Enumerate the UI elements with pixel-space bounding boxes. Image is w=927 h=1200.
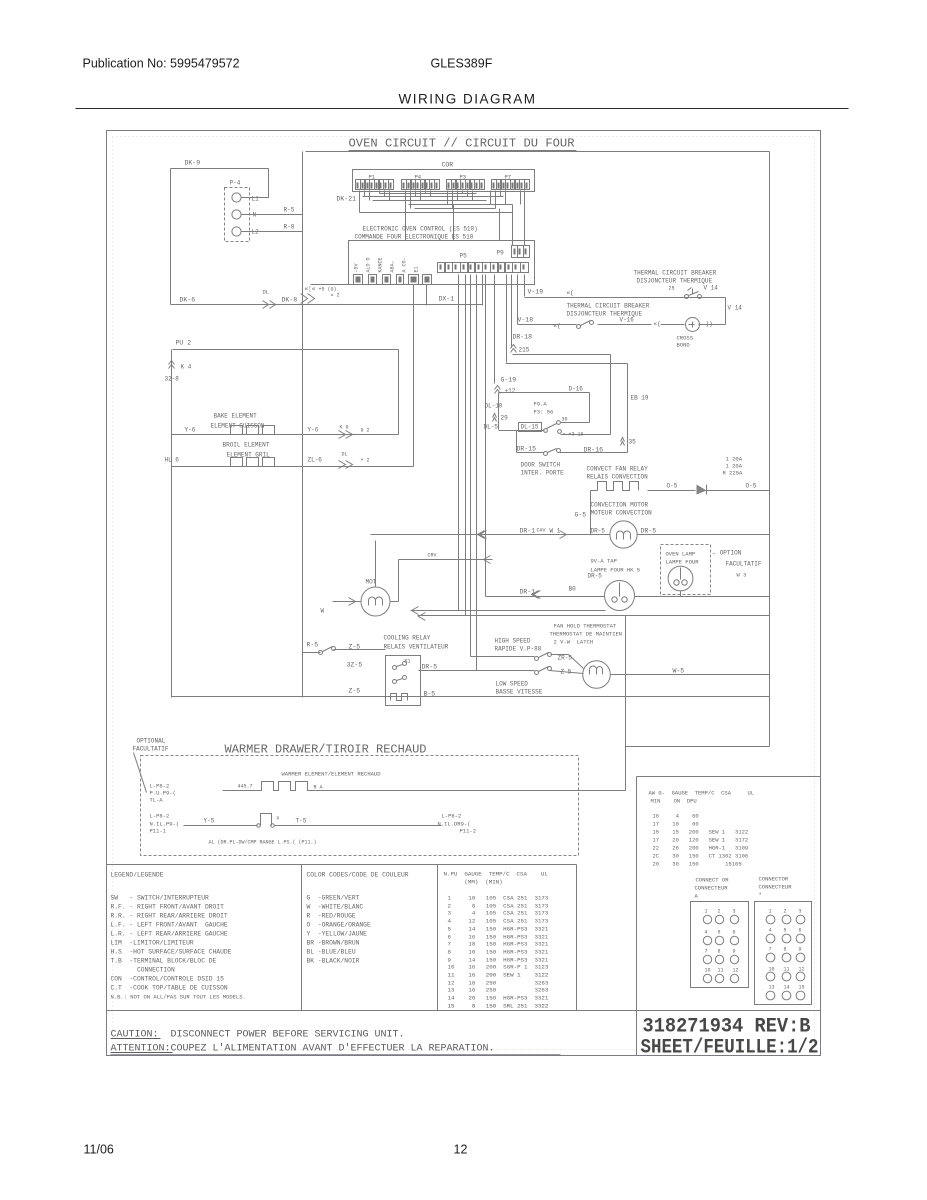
svg-text:A: A — [695, 893, 699, 900]
svg-text:9 2: 9 2 — [361, 428, 370, 434]
svg-text:*: * — [759, 892, 762, 899]
svg-text:15 15 200 SEW 1 3122: 15 15 200 SEW 1 3122 — [653, 829, 749, 836]
svg-text:1 10 105 CSA 251 3173: 1 10 105 CSA 251 3173 — [448, 895, 549, 902]
svg-text:5 14 150 HGR-PS3 3321: 5 14 150 HGR-PS3 3321 — [448, 926, 549, 933]
svg-text:COOLING RELAY: COOLING RELAY — [384, 635, 431, 642]
svg-text:R-5: R-5 — [307, 642, 319, 649]
svg-text:Z-5: Z-5 — [349, 688, 361, 695]
svg-text:CONNECTOR: CONNECTOR — [759, 876, 789, 883]
svg-text:DR-5: DR-5 — [591, 528, 606, 535]
svg-text:13 16 250 3263: 13 16 250 3263 — [448, 987, 549, 994]
svg-text:DR-5: DR-5 — [641, 528, 657, 535]
svg-text:12: 12 — [454, 1143, 468, 1157]
svg-text:CONNECTEUR: CONNECTEUR — [695, 885, 729, 892]
svg-text:SW - SWITCH/INTERRUPTEUR: SW - SWITCH/INTERRUPTEUR — [111, 895, 209, 902]
svg-text:DL-5: DL-5 — [484, 424, 499, 431]
svg-text:O -ORANGE/ORANGE: O -ORANGE/ORANGE — [307, 922, 371, 929]
svg-text:14: 14 — [784, 985, 790, 991]
svg-text:AL (DR.PL-DW/CMP RANGE L.PS.(: AL (DR.PL-DW/CMP RANGE L.PS.( (P11.) — [209, 840, 317, 846]
svg-text:3Z-5: 3Z-5 — [347, 662, 363, 669]
svg-text:6: 6 — [733, 930, 736, 936]
svg-text:2C 30 150 CT 1302 3106: 2C 30 150 CT 1302 3106 — [653, 853, 749, 860]
svg-text:2: 2 — [718, 909, 721, 915]
svg-text:CONVECT FAN RELAY: CONVECT FAN RELAY — [587, 466, 649, 473]
svg-text:W 1: W 1 — [550, 528, 561, 535]
svg-text:ELECTRONIC OVEN CONTROL (ES 51: ELECTRONIC OVEN CONTROL (ES 510) — [363, 226, 478, 233]
svg-text:V-18: V-18 — [518, 317, 534, 324]
svg-text:COR: COR — [442, 162, 454, 169]
svg-text:N.IL.DR9-(: N.IL.DR9-( — [438, 821, 471, 828]
svg-text:MOTEUR CONVECTION: MOTEUR CONVECTION — [591, 510, 653, 517]
svg-text:12 18 250 3263: 12 18 250 3263 — [448, 980, 549, 987]
svg-text:25: 25 — [669, 286, 675, 292]
svg-text:L.R. - LEFT REAR/ARRIERE GAUCH: L.R. - LEFT REAR/ARRIERE GAUCHE — [111, 931, 228, 938]
svg-text:D-16: D-16 — [569, 386, 584, 393]
svg-text:10 16 200 SGR-P 1 3123: 10 16 200 SGR-P 1 3123 — [448, 964, 549, 971]
svg-text:R: R — [277, 816, 280, 822]
svg-text:W: W — [321, 608, 325, 615]
svg-text:R-8: R-8 — [284, 224, 295, 231]
svg-text:(MM) (MIN): (MM) (MIN) — [444, 879, 503, 886]
svg-text:T-5: T-5 — [296, 818, 307, 825]
svg-text:+ 2: + 2 — [361, 458, 370, 464]
svg-text:Publication No: 5995479572: Publication No: 5995479572 — [83, 57, 240, 71]
svg-text:Y-6: Y-6 — [308, 427, 319, 434]
svg-text:ZL-6: ZL-6 — [308, 457, 323, 464]
svg-text:3: 3 — [733, 909, 736, 915]
svg-text:15 8 150 SRL 251 3322: 15 8 150 SRL 251 3322 — [448, 1003, 549, 1010]
svg-text:8: 8 — [784, 947, 787, 953]
svg-text:B0: B0 — [569, 586, 577, 593]
svg-text:12: 12 — [733, 968, 739, 974]
svg-text:10: 10 — [705, 968, 711, 974]
svg-text:K 9: K 9 — [340, 425, 349, 431]
svg-text:L-P8-2: L-P8-2 — [150, 813, 170, 820]
svg-text:11 16 200 SEW 1 3122: 11 16 200 SEW 1 3122 — [448, 972, 549, 979]
svg-text:R A: R A — [314, 785, 323, 791]
svg-text:9: 9 — [799, 947, 802, 953]
svg-text:P.U.P9-(: P.U.P9-( — [150, 790, 176, 797]
svg-text:8: 8 — [718, 949, 721, 955]
svg-text:DK-6: DK-6 — [180, 297, 196, 304]
svg-text:20 30 150 15105: 20 30 150 15105 — [653, 861, 742, 868]
svg-text:HL 6: HL 6 — [165, 457, 180, 464]
svg-text:7: 7 — [705, 949, 708, 955]
svg-text:DK-9: DK-9 — [185, 160, 201, 167]
svg-text:BL -BLUE/BLEU: BL -BLUE/BLEU — [307, 949, 356, 956]
svg-text:A8A-: A8A- — [390, 260, 396, 272]
svg-text:« 2: « 2 — [331, 293, 340, 299]
svg-text:V-16: V-16 — [620, 317, 635, 324]
svg-text:W-5: W-5 — [673, 668, 685, 675]
svg-text:8 10 150 HGR-PS3 3321: 8 10 150 HGR-PS3 3321 — [448, 949, 549, 956]
svg-text:FAN HOLD THERMOSTAT: FAN HOLD THERMOSTAT — [554, 623, 617, 630]
svg-text:P-4: P-4 — [230, 180, 241, 187]
svg-text:« +3 16: « +3 16 — [563, 432, 584, 438]
svg-text:1: 1 — [705, 909, 708, 915]
svg-text:«(: «( — [554, 323, 561, 330]
svg-text:32-8: 32-8 — [165, 376, 180, 383]
svg-text:H.S -HOT SURFACE/SURFACE CHAU: H.S -HOT SURFACE/SURFACE CHAUDE — [111, 949, 232, 956]
svg-text:P9: P9 — [497, 250, 505, 257]
svg-text:P11-1: P11-1 — [150, 828, 167, 835]
svg-text:4: 4 — [769, 928, 772, 934]
svg-text:O-5: O-5 — [746, 483, 757, 490]
svg-text:-5V: -5V — [354, 263, 360, 272]
svg-text:R-5: R-5 — [284, 207, 295, 214]
svg-text:DR-5: DR-5 — [588, 573, 603, 580]
svg-text:THERMAL CIRCUIT BREAKER: THERMAL CIRCUIT BREAKER — [634, 270, 717, 277]
svg-text:RELAIS VENTILATEUR: RELAIS VENTILATEUR — [384, 644, 449, 651]
svg-text:L-P8-2: L-P8-2 — [150, 783, 170, 790]
svg-text:O-5: O-5 — [667, 483, 678, 490]
svg-text:1 20A: 1 20A — [726, 463, 743, 470]
svg-text:35: 35 — [629, 439, 637, 446]
svg-text:2 8 105 CSA 251 3173: 2 8 105 CSA 251 3173 — [448, 903, 549, 910]
svg-text:ALO O: ALO O — [366, 257, 372, 272]
svg-text:215: 215 — [519, 347, 530, 354]
svg-text:R.F. - RIGHT FRONT/AVANT DROIT: R.F. - RIGHT FRONT/AVANT DROIT — [111, 904, 225, 911]
svg-text:R -RED/ROUGE: R -RED/ROUGE — [307, 913, 356, 920]
svg-text:G-19: G-19 — [501, 377, 517, 384]
svg-text:22 26 200 HGR-1 3109: 22 26 200 HGR-1 3109 — [653, 845, 749, 852]
svg-text:DR-1: DR-1 — [520, 528, 536, 535]
svg-text:SHEET/FEUILLE:1/2: SHEET/FEUILLE:1/2 — [641, 1037, 819, 1060]
svg-text:COLOR CODES/CODE DE COULEUR: COLOR CODES/CODE DE COULEUR — [307, 872, 409, 879]
svg-text:30: 30 — [562, 417, 568, 423]
svg-text:DL-10: DL-10 — [485, 403, 503, 410]
svg-text:F9.A: F9.A — [534, 401, 548, 408]
svg-text:17 10 60: 17 10 60 — [653, 821, 699, 828]
svg-text:1: 1 — [769, 909, 772, 915]
svg-text:RAPIDE V.P-88: RAPIDE V.P-88 — [495, 646, 542, 653]
svg-text:L1: L1 — [252, 196, 260, 203]
svg-text:10: 10 — [769, 967, 775, 973]
svg-text:N.PU GAUGE TEMP/C CSA UL: N.PU GAUGE TEMP/C CSA UL — [444, 871, 549, 878]
svg-text:GLES389F: GLES389F — [431, 57, 493, 71]
svg-text:2 V-W LATCH: 2 V-W LATCH — [554, 639, 594, 646]
svg-text:FACULTATIF: FACULTATIF — [726, 561, 762, 568]
svg-text:Y-6: Y-6 — [185, 427, 196, 434]
svg-text:L.F. - LEFT FRONT/AVANT GAUCH: L.F. - LEFT FRONT/AVANT GAUCHE — [111, 922, 228, 929]
svg-text:V-19: V-19 — [528, 289, 544, 296]
svg-text:29: 29 — [501, 415, 509, 422]
svg-text:E1: E1 — [414, 266, 420, 272]
svg-text:R 225A: R 225A — [723, 470, 744, 477]
svg-text:WARMER DRAWER/TIROIR RECHAUD: WARMER DRAWER/TIROIR RECHAUD — [225, 744, 427, 757]
svg-text:DL: DL — [263, 289, 270, 296]
svg-text:1 20A: 1 20A — [726, 456, 743, 463]
svg-text:OPTIONAL: OPTIONAL — [137, 738, 166, 745]
svg-text:V 14: V 14 — [704, 285, 719, 292]
svg-text:«(: «( — [654, 321, 661, 328]
svg-text:T.B -TERMINAL BLOCK/BLOC DE: T.B -TERMINAL BLOCK/BLOC DE — [111, 958, 217, 965]
svg-text:WARMER ELEMENT/ELEMENT RECHAUD: WARMER ELEMENT/ELEMENT RECHAUD — [282, 771, 382, 778]
svg-text:6: 6 — [799, 928, 802, 934]
svg-text:BR -BROWN/BRUN: BR -BROWN/BRUN — [307, 940, 360, 947]
svg-text:BROIL ELEMENT: BROIL ELEMENT — [223, 442, 270, 449]
svg-text:W 3: W 3 — [737, 572, 747, 579]
svg-text:TL-A: TL-A — [150, 797, 164, 804]
svg-text:BAKE ELEMENT: BAKE ELEMENT — [214, 413, 258, 420]
svg-text:R.R. - RIGHT REAR/ARRIERE DROI: R.R. - RIGHT REAR/ARRIERE DROIT — [111, 913, 228, 920]
svg-text:INTER. PORTE: INTER. PORTE — [521, 470, 565, 477]
svg-text:KANCE: KANCE — [378, 257, 384, 272]
svg-text:P11-2: P11-2 — [460, 828, 477, 835]
svg-text:LAMPE FOUR: LAMPE FOUR — [666, 559, 700, 566]
svg-text:+12: +12 — [505, 388, 516, 395]
svg-text:LIM -LIMITOR/LIMITEUR: LIM -LIMITOR/LIMITEUR — [111, 940, 194, 947]
svg-text:G-5: G-5 — [575, 512, 587, 519]
svg-text:5: 5 — [784, 928, 787, 934]
svg-text:13: 13 — [769, 985, 775, 991]
svg-text:DL: DL — [342, 452, 348, 458]
svg-text:A CO-: A CO- — [402, 257, 408, 272]
svg-text:DL-15: DL-15 — [521, 424, 539, 431]
svg-text:«(: «( — [567, 290, 574, 297]
svg-text:C.T -COOK TOP/TABLE DE CUISSO: C.T -COOK TOP/TABLE DE CUISSON — [111, 985, 228, 992]
svg-text:N.B.: NOT ON ALL/PAS SUR TOUT: N.B.: NOT ON ALL/PAS SUR TOUT LES MODELS… — [111, 994, 246, 1001]
svg-text:9V-A TAP: 9V-A TAP — [591, 558, 617, 565]
svg-text:THERMAL CIRCUIT BREAKER: THERMAL CIRCUIT BREAKER — [567, 303, 650, 310]
svg-text:CRV: CRV — [428, 553, 437, 559]
svg-text:PU 2: PU 2 — [176, 340, 192, 347]
svg-text:BOND: BOND — [677, 342, 691, 349]
svg-text:9: 9 — [733, 949, 736, 955]
svg-text:DX-1: DX-1 — [439, 296, 455, 303]
svg-text:V 14: V 14 — [728, 305, 743, 312]
svg-text:DR-5: DR-5 — [422, 664, 438, 671]
svg-text:Y-5: Y-5 — [204, 818, 215, 825]
svg-text:4 12 105 CSA 251 3173: 4 12 105 CSA 251 3173 — [448, 918, 549, 925]
svg-text:L-P8-2: L-P8-2 — [442, 813, 462, 820]
svg-text:7 18 150 HGR-PS3 3321: 7 18 150 HGR-PS3 3321 — [448, 941, 549, 948]
svg-text:CAV: CAV — [537, 528, 546, 534]
svg-text:«¦«: «¦« — [305, 286, 316, 293]
svg-text:17 20 120 SEW 1 3172: 17 20 120 SEW 1 3172 — [653, 837, 749, 844]
svg-text:CONNECTEUR: CONNECTEUR — [759, 884, 793, 891]
svg-text:16 4 60: 16 4 60 — [653, 813, 699, 820]
svg-text:← OPTION: ← OPTION — [713, 550, 742, 557]
svg-text:DR-15: DR-15 — [517, 446, 537, 453]
svg-text:COMMANDE FOUR ELECTRONIQUE ES: COMMANDE FOUR ELECTRONIQUE ES 510 — [355, 234, 474, 241]
svg-text:CONNECT OR: CONNECT OR — [696, 877, 730, 884]
svg-text:12: 12 — [799, 967, 805, 973]
svg-text:MIN ON DPU: MIN ON DPU — [651, 798, 697, 805]
svg-text:DK-8: DK-8 — [282, 297, 298, 304]
svg-text:WIRING DIAGRAM: WIRING DIAGRAM — [399, 92, 537, 107]
svg-text:F3: 56: F3: 56 — [534, 409, 554, 416]
svg-text:RELAIS CONVECTION: RELAIS CONVECTION — [587, 474, 649, 481]
svg-text:3: 3 — [799, 909, 802, 915]
svg-text:4: 4 — [705, 930, 708, 936]
svg-text:OVEN LAMP: OVEN LAMP — [666, 551, 696, 558]
svg-text:318271934 REV:B: 318271934 REV:B — [643, 1016, 811, 1039]
svg-text:LOW SPEED: LOW SPEED — [496, 681, 529, 688]
svg-text:CONVECTION MOTOR: CONVECTION MOTOR — [591, 502, 649, 509]
svg-text:CONNECTION: CONNECTION — [111, 967, 175, 974]
svg-text:OVEN CIRCUIT // CIRCUIT DU FOU: OVEN CIRCUIT // CIRCUIT DU FOUR — [349, 137, 576, 151]
svg-text:CON -CONTROL/CONTROLE DSID 15: CON -CONTROL/CONTROLE DSID 15 — [111, 976, 225, 983]
svg-text:DISJONCTEUR THERMIQUE: DISJONCTEUR THERMIQUE — [637, 278, 713, 285]
svg-text:BASSE VITESSE: BASSE VITESSE — [496, 689, 543, 696]
svg-text:FACULTATIF: FACULTATIF — [133, 746, 169, 753]
svg-text:Y -YELLOW/JAUNE: Y -YELLOW/JAUNE — [307, 931, 368, 938]
svg-text:6 16 150 HGR-PS3 3321: 6 16 150 HGR-PS3 3321 — [448, 934, 549, 941]
svg-text:2: 2 — [784, 909, 787, 915]
svg-text:THERMOSTAT DE MAINTIEN: THERMOSTAT DE MAINTIEN — [550, 631, 623, 638]
svg-text:15: 15 — [799, 985, 805, 991]
svg-text:DOOR SWITCH: DOOR SWITCH — [521, 462, 561, 469]
svg-text:11: 11 — [784, 967, 790, 973]
svg-text:LEGEND/LEGENDE: LEGEND/LEGENDE — [111, 872, 164, 879]
svg-text:G -GREEN/VERT: G -GREEN/VERT — [307, 895, 360, 902]
svg-text:9 14 150 HGR-PS3 3321: 9 14 150 HGR-PS3 3321 — [448, 957, 549, 964]
svg-text:BK -BLACK/NOIR: BK -BLACK/NOIR — [307, 958, 360, 965]
svg-text:5: 5 — [718, 930, 721, 936]
svg-text:11: 11 — [718, 968, 724, 974]
svg-text:3 4 105 CSA 251 3173: 3 4 105 CSA 251 3173 — [448, 910, 549, 917]
svg-text:N.IL.P9-(: N.IL.P9-( — [150, 821, 180, 828]
svg-text:11/06: 11/06 — [84, 1143, 114, 1157]
svg-text:HIGH SPEED: HIGH SPEED — [495, 638, 531, 645]
svg-text:DK-21: DK-21 — [337, 196, 357, 203]
svg-text:14 20 150 HGR-PS3 3321: 14 20 150 HGR-PS3 3321 — [448, 995, 549, 1002]
svg-text:EB 19: EB 19 — [631, 395, 649, 402]
svg-text:W -WHITE/BLANC: W -WHITE/BLANC — [307, 904, 364, 911]
svg-text:P5: P5 — [460, 253, 468, 260]
svg-text:DR-18: DR-18 — [513, 334, 533, 341]
svg-text:445.7: 445.7 — [238, 784, 253, 790]
svg-text:CROSS: CROSS — [677, 335, 694, 342]
svg-text:K 4: K 4 — [181, 364, 192, 371]
svg-text:7: 7 — [769, 947, 772, 953]
svg-text:AW G- GAUGE TEMP/C CSA: AW G- GAUGE TEMP/C CSA UL — [649, 790, 755, 797]
